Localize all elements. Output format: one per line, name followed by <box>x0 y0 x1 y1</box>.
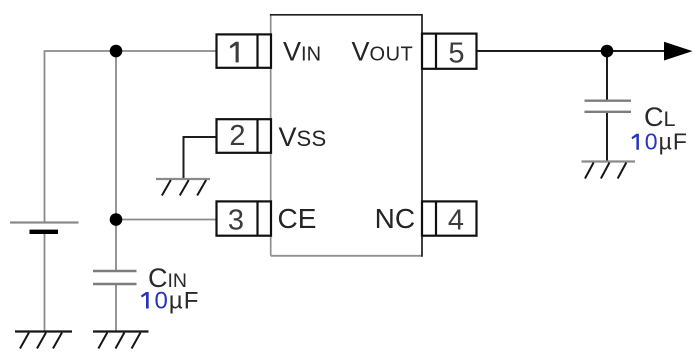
pin 2 box <box>217 119 272 153</box>
ground (VSS pin 2) <box>156 179 210 196</box>
svg-text:2: 2 <box>229 120 245 152</box>
svg-text:NC: NC <box>375 203 415 234</box>
wire: CL top from output node <box>606 51 608 100</box>
wire: battery negative to ground <box>44 233 46 332</box>
pin 1 box <box>217 34 272 67</box>
wire: CL bottom plate to ground <box>606 112 608 162</box>
wire: left vertical battery branch <box>44 50 46 222</box>
svg-text:0µF: 0µF <box>155 288 200 315</box>
pin number 1 <box>230 42 239 63</box>
wire: CIN bottom plate to ground <box>115 284 117 332</box>
pin 4 box <box>422 201 477 235</box>
wire: horizontal from node B to pin 3 (CE) <box>116 219 217 221</box>
wire: middle vertical from node A down to CIN <box>115 51 117 270</box>
battery BT1 <box>10 223 79 235</box>
node A junction dot (VIN net) <box>110 45 123 58</box>
wire: output from pin 5 to arrow <box>477 50 666 52</box>
ground (battery) <box>15 332 72 349</box>
ground (CIN) <box>93 332 149 349</box>
svg-text:VSS: VSS <box>279 122 327 152</box>
svg-text:CE: CE <box>278 203 317 234</box>
capacitor CIN <box>93 271 137 284</box>
svg-text:0µF: 0µF <box>645 129 688 155</box>
capacitor CL <box>585 101 632 112</box>
pin 3 box <box>217 201 272 235</box>
node B junction dot (CE net) <box>110 213 123 226</box>
op-amp U1 regulator body <box>270 14 422 257</box>
wire: top horizontal from battery to pin 1 <box>45 50 217 52</box>
node C junction dot (VOUT net) <box>601 45 614 58</box>
svg-text:5: 5 <box>448 37 464 69</box>
ground (CL) <box>582 162 636 179</box>
svg-text:3: 3 <box>228 205 244 237</box>
svg-text:4: 4 <box>448 205 464 237</box>
wire: VSS pin 2 to ground (horizontal + vertical jog) <box>184 137 217 179</box>
arrow (output) <box>664 42 693 61</box>
value 10uF (CL) <box>632 129 688 155</box>
pin 5 box <box>422 34 477 69</box>
value 10uF (CIN) <box>141 288 199 315</box>
svg-text:CL: CL <box>644 102 676 132</box>
